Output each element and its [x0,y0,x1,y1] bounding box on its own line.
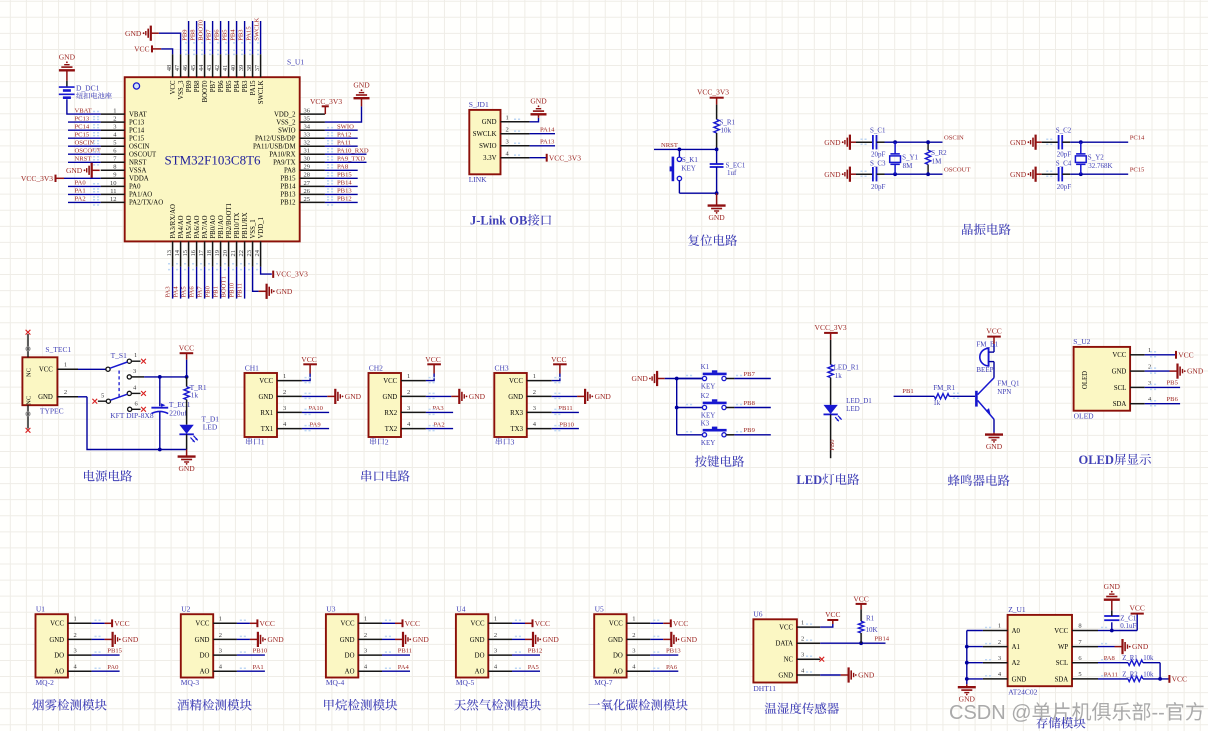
svg-text:3: 3 [494,648,497,655]
MCU left pin 1 VBAT [101,113,125,115]
svg-text:S_C1: S_C1 [870,126,886,134]
svg-text:VSSA: VSSA [129,168,146,175]
wire net PA12 [325,137,358,139]
wire C to node bottom [1062,173,1070,175]
svg-text:20pF: 20pF [1057,183,1072,191]
svg-text:3: 3 [407,405,410,412]
connector CH2 body [369,373,402,437]
svg-text:VCC: VCC [1112,352,1126,359]
MCU top pin 44 BOOT0 [204,54,206,77]
wire net PA14 [530,133,555,135]
svg-text:RX2: RX2 [384,410,397,417]
svg-text:LED: LED [846,405,860,413]
svg-text:OSCOUT: OSCOUT [129,152,157,159]
wire rail to K2 [677,407,703,409]
U1 pin 3 DO [68,654,92,656]
svg-text:3: 3 [533,405,536,412]
svg-text:S_U2: S_U2 [1073,337,1090,346]
svg-text:PA12/USB/DP: PA12/USB/DP [255,136,296,143]
wire net SWIO [325,129,358,131]
svg-text:PB8: PB8 [744,400,756,407]
Z_U1 left pin 3 A2 [983,662,1008,664]
svg-text:GND: GND [482,119,497,126]
svg-text:PA12: PA12 [337,131,351,138]
MCU right pin 36 VDD_2 [300,113,325,115]
svg-text:PA2: PA2 [434,421,445,428]
ground (power) [178,455,196,457]
ground (WP) [1115,646,1123,648]
wire net PB15 [325,177,358,179]
U3 pin 4 AO [358,670,382,672]
svg-text:36: 36 [304,108,311,115]
U3 pin 1 VCC [358,622,382,624]
svg-text:PA6: PA6 [666,664,678,671]
svg-text:33: 33 [304,132,311,139]
svg-text:MQ-5: MQ-5 [456,678,475,687]
svg-text:VCC: VCC [425,355,440,364]
power flag VCC (U4) [532,619,534,627]
svg-text:SWCLK: SWCLK [258,80,265,104]
wire net PB11 [552,411,579,413]
svg-text:PB13: PB13 [337,188,352,195]
svg-text:RX3: RX3 [510,410,523,417]
svg-text:PA14: PA14 [540,126,555,133]
svg-text:GND: GND [608,637,623,644]
ground (CH1) [327,395,335,397]
svg-text:PB13: PB13 [666,648,681,655]
wire buzzer top to VCC [989,351,994,353]
wire cap to bottom rail [159,412,161,450]
wire cap to gnd node [716,167,718,193]
svg-text:NPN: NPN [997,388,1011,396]
svg-text:1: 1 [801,620,804,627]
svg-text:PB5: PB5 [1167,380,1179,387]
connector S_JD1 body [469,110,500,174]
ground (DHT) [841,674,849,676]
selection dashes top [185,42,259,44]
svg-text:220uf: 220uf [169,409,187,418]
svg-text:VSS_3: VSS_3 [178,80,185,100]
svg-text:OLED: OLED [1082,371,1089,389]
wire net PB7 [212,21,214,54]
svg-text:DHT11: DHT11 [753,684,776,693]
svg-text:VSS_2: VSS_2 [276,119,296,126]
svg-text:Z_R1: Z_R1 [1122,655,1137,662]
svg-text:PB15: PB15 [337,171,352,178]
svg-text:GND: GND [1187,367,1204,376]
svg-text:VCC: VCC [195,621,209,628]
svg-text:31: 31 [304,148,311,155]
svg-text:BOOT0: BOOT0 [202,80,209,103]
svg-text:GND: GND [125,29,142,38]
svg-text:VBAT: VBAT [129,111,148,118]
svg-text:NC: NC [784,657,794,664]
svg-text:BOOT0: BOOT0 [198,19,205,41]
svg-text:VCC: VCC [986,327,1001,336]
svg-text:OSCIN: OSCIN [75,140,95,147]
svg-text:GND: GND [632,374,649,383]
MCU bottom pin 17 PA7/AO [204,241,206,266]
wire pin2 to GND [426,395,451,397]
wire pin2 GND [237,638,250,640]
svg-text:PB6: PB6 [214,29,221,41]
svg-text:GND: GND [59,53,76,62]
svg-text:GND: GND [353,80,370,89]
svg-text:SCL: SCL [1056,660,1068,667]
buzzer FM_B1 [980,348,989,366]
svg-text:U4: U4 [456,605,465,614]
wire pin1 VCC [92,622,105,624]
wire VDD_1 to VCC_3V3 [261,267,272,274]
wire C to node top [1062,141,1070,143]
svg-text:2: 2 [113,116,116,123]
svg-text:47: 47 [174,64,181,71]
MCU bottom pin 18 PB0/AO [212,241,214,266]
wire net PB13 [650,654,678,656]
svg-text:GND: GND [178,464,195,473]
svg-text:15: 15 [182,250,189,257]
wire R1 to LED [830,378,832,405]
Z_U1 left pin 4 GND [983,678,1008,680]
OLED pin 3 SCL [1130,386,1145,388]
title reset circuit [688,235,699,247]
svg-text:3: 3 [219,648,222,655]
svg-text:U1: U1 [36,605,45,614]
svg-text:8: 8 [113,164,116,171]
svg-text:PB4: PB4 [230,29,237,41]
svg-text:PA0: PA0 [129,184,141,191]
wire net PA3 [172,267,174,299]
svg-text:TX1: TX1 [261,426,273,433]
title 酒精检测模块 [177,699,189,710]
svg-text:MQ-2: MQ-2 [36,678,55,687]
svg-text:3: 3 [632,648,635,655]
svg-text:VCC: VCC [551,355,566,364]
wire net PB3 [244,21,246,54]
ground at MCU pin 35 [354,97,370,99]
title 一氧化碳检测模块 [589,703,601,705]
svg-text:KEY: KEY [701,383,715,391]
svg-text:SCL: SCL [1114,385,1126,392]
svg-text:PA0: PA0 [75,180,87,187]
svg-text:SWIO: SWIO [479,143,496,150]
power flag VCC [1168,675,1170,683]
wire net PB9 [188,21,190,54]
Z_U1 right pin 7 WP [1072,646,1098,648]
svg-text:42: 42 [214,65,221,72]
MCU top pin 38 PA15 [252,54,254,77]
wire pin1 VCC [382,622,395,624]
svg-text:PA2/TX/AO: PA2/TX/AO [129,200,163,207]
svg-text:R1: R1 [866,614,875,622]
svg-text:PB12: PB12 [528,648,543,655]
svg-text:PB8: PB8 [190,29,197,41]
svg-text:GND: GND [276,287,293,296]
wire R1 to LED [186,400,188,425]
MCU left pin 12 PA2/TX/AO [101,201,125,203]
cap rail [159,377,161,406]
svg-text:PB13: PB13 [280,192,296,199]
svg-text:1: 1 [261,437,265,446]
wire net PA4 [382,670,410,672]
svg-text:PA1: PA1 [75,188,86,195]
wire pin1 to switch [78,368,106,370]
capacitor S_C1 [872,135,874,149]
OLED pin 4 SDA [1130,403,1145,405]
svg-text:CH1: CH1 [245,363,259,372]
svg-text:GND: GND [469,392,486,401]
svg-text:1uf: 1uf [727,169,737,177]
Z_U1 left pin 1 A0 [983,630,1008,632]
power flag VCC_3V3 at MCU pin 24 [272,271,274,278]
svg-text:PA7/AO: PA7/AO [202,215,209,238]
CH3 pin 3 RX3 [527,411,552,413]
svg-text:GND: GND [122,635,139,644]
svg-text:1M: 1M [932,158,943,166]
svg-text:D_DC1: D_DC1 [76,84,100,93]
svg-text:VCC: VCC [1178,350,1193,359]
svg-text:PB7: PB7 [744,371,756,378]
svg-text:OLED: OLED [1074,411,1095,420]
MCU top pin 39 PB3 [244,54,246,77]
wire VCC down [186,360,188,377]
svg-text:PB11: PB11 [558,405,572,412]
svg-text:25: 25 [304,196,311,203]
svg-text:KEY: KEY [681,165,695,173]
svg-text:18: 18 [206,250,213,257]
svg-text:GND: GND [470,637,485,644]
svg-text:2: 2 [385,437,389,446]
svg-text:13: 13 [166,250,173,257]
LED T_D1 [179,425,193,434]
svg-text:PB10: PB10 [228,282,235,297]
wire net PB5 [228,21,230,54]
svg-text:VCC: VCC [114,619,129,628]
ground (U2) [250,638,258,640]
svg-text:LED_R1: LED_R1 [834,363,860,371]
label battery holder [76,92,83,98]
svg-text:1: 1 [113,108,116,115]
svg-text:PA3: PA3 [433,405,445,412]
svg-text:1: 1 [407,373,410,380]
svg-text:BOOT1: BOOT1 [220,276,227,297]
module U5 MQ-7 body [594,614,626,677]
svg-text:14: 14 [174,249,181,256]
power flag VCC at MCU pin 48 [151,45,153,52]
U2 pin 1 VCC [213,622,237,624]
U4 pin 3 DO [488,654,512,656]
ground (U3) [395,638,403,640]
wire net PA11 [325,145,358,147]
svg-text:GND: GND [708,213,725,222]
power flag VCC (U3) [402,619,404,627]
wire battery to VBAT [67,99,68,114]
svg-text:TYPEC: TYPEC [40,407,64,416]
svg-text:8: 8 [1078,623,1081,630]
svg-text:2: 2 [506,127,509,134]
MCU right pin 34 SWIO [300,129,325,131]
MCU top pin 42 PB6 [220,54,222,77]
U6 pin 2 DATA [797,642,820,644]
svg-text:VCC: VCC [1172,675,1187,684]
MCU bottom pin 15 PA5/AO [188,241,190,266]
wire pin1 to VCC [426,374,434,381]
svg-text:1: 1 [533,373,536,380]
svg-text:PB14: PB14 [337,180,352,187]
svg-text:PB12: PB12 [337,196,352,203]
svg-text:RX1: RX1 [260,410,273,417]
svg-text:3: 3 [283,405,286,412]
MCU bottom pin 20 PB2/BOOT1 [228,241,230,266]
svg-text:2: 2 [64,389,67,396]
svg-text:3: 3 [506,139,509,146]
svg-text:BEEP: BEEP [976,366,993,374]
label serial port 1 [246,438,252,445]
svg-text:PA8: PA8 [337,163,349,170]
CH2 pin 3 RX2 [401,411,426,413]
svg-text:3: 3 [1148,380,1151,387]
resistor S_R2 [927,142,929,150]
svg-text:PB9: PB9 [182,29,189,41]
svg-text:VCC: VCC [1129,604,1144,613]
svg-text:VCC_3V3: VCC_3V3 [697,88,729,97]
svg-text:U3: U3 [326,605,335,614]
svg-text:GND: GND [258,394,273,401]
svg-text:K2: K2 [701,392,710,400]
MCU bottom pin 22 PB11/RX [244,241,246,266]
svg-text:GND: GND [49,637,64,644]
wire OLED GND [1145,370,1170,372]
wire DATA net PB14 [820,642,885,644]
wire rail to K3 [677,434,703,436]
svg-text:VCC: VCC [170,80,177,94]
svg-text:10k: 10k [721,127,732,135]
svg-text:VCC: VCC [405,619,420,628]
TYPEC pin 1 stub [57,368,78,370]
svg-text:Z_R2: Z_R2 [1122,671,1138,678]
svg-text:VDD_2: VDD_2 [274,111,296,118]
U4 pin 2 GND [488,638,512,640]
svg-text:PB0: PB0 [204,285,211,297]
CH3 pin 4 TX3 [527,428,552,430]
svg-text:3: 3 [113,124,116,131]
svg-text:S_Y2: S_Y2 [1088,153,1104,161]
wire net PA9_TXD [325,161,367,163]
capacitor S_C4 [1058,167,1060,181]
svg-text:PA9: PA9 [310,421,322,428]
module U4 MQ-5 body [456,614,488,677]
title 天然气检测模块 [454,699,466,710]
wire net PB12 [512,654,540,656]
svg-text:2: 2 [219,632,222,639]
svg-text:20pF: 20pF [1057,151,1072,159]
svg-text:PB12: PB12 [280,200,296,207]
svg-text:VCC: VCC [134,44,149,53]
svg-text:PB4: PB4 [234,80,241,92]
title buzzer circuit [948,475,960,487]
U6 pin 3 NC [797,658,820,660]
svg-text:GND: GND [778,672,793,679]
CH3 pin 1 VCC [527,380,552,382]
wire node to net OSCIN [895,141,942,143]
U1 pin 1 VCC [68,622,92,624]
U2 pin 4 AO [213,670,237,672]
wire net PC14 [68,129,101,131]
svg-text:45: 45 [190,65,197,72]
svg-text:LED: LED [796,473,822,487]
svg-text:41: 41 [222,65,229,72]
label serial port 3 [496,438,502,445]
wire C to node top [877,141,885,143]
svg-text:DO: DO [200,653,210,660]
svg-text:VCC: VCC [673,619,688,628]
switch pin5 stub + NC [98,400,106,402]
wire pin2 to bottom rail [78,396,87,398]
ground (storage left) [958,686,976,688]
wire buzzer bottom to collector [989,361,994,363]
svg-text:VCC_3V3: VCC_3V3 [815,323,847,332]
wire net PA1 [237,670,265,672]
svg-text:OSCIN: OSCIN [944,135,964,142]
wire VCC to MCU pin 48 [161,49,173,54]
wire net PB15 [92,654,120,656]
svg-text:19: 19 [214,250,221,257]
svg-text:U6: U6 [753,610,762,619]
svg-text:PB0: PB0 [829,439,836,451]
svg-text:PA5: PA5 [180,286,187,298]
svg-text:GND: GND [1010,170,1027,179]
svg-text:35: 35 [304,116,311,123]
svg-text:1: 1 [364,616,367,623]
svg-text:PA8: PA8 [1104,655,1116,662]
svg-text:VCC: VCC [509,378,523,385]
resistor T_R1 1k [184,387,189,400]
wire pin2 GND [512,638,525,640]
svg-text:3: 3 [998,655,1001,662]
wire net PA2 [68,201,101,203]
svg-text:PA9/TX: PA9/TX [273,160,296,167]
CH1 pin 4 TX1 [277,428,302,430]
svg-text:CH2: CH2 [369,363,383,372]
svg-text:GND: GND [681,635,698,644]
svg-text:9: 9 [113,172,116,179]
wire net PA15 [252,21,254,54]
CH2 pin 2 GND [401,395,426,397]
svg-text:MQ-3: MQ-3 [181,678,200,687]
wire net PA6 [650,670,678,672]
wire net PA9 [302,428,329,430]
wire LED down PB0 [830,414,832,458]
U2 pin 3 DO [213,654,237,656]
svg-text:PB8: PB8 [194,80,201,92]
svg-text:S_C4: S_C4 [1056,159,1072,167]
svg-text:S_Y1: S_Y1 [902,153,918,161]
wire net PA0 [92,670,120,672]
wire K2 to net PB8 [726,407,734,409]
svg-text:AO: AO [200,669,210,676]
wire net PB10 [236,267,238,299]
switch lever 2-1 [110,362,127,368]
svg-text:2: 2 [998,639,1001,646]
ground (CH2) [451,395,459,397]
TYPEC mount wire top [27,334,29,357]
svg-text:PB7: PB7 [210,80,217,92]
wire net PA7 [204,267,206,299]
wire net PA5 [188,267,190,299]
svg-text:VCC: VCC [179,344,194,353]
svg-text:1k: 1k [191,391,199,400]
wire net BOOT0 [204,21,206,54]
